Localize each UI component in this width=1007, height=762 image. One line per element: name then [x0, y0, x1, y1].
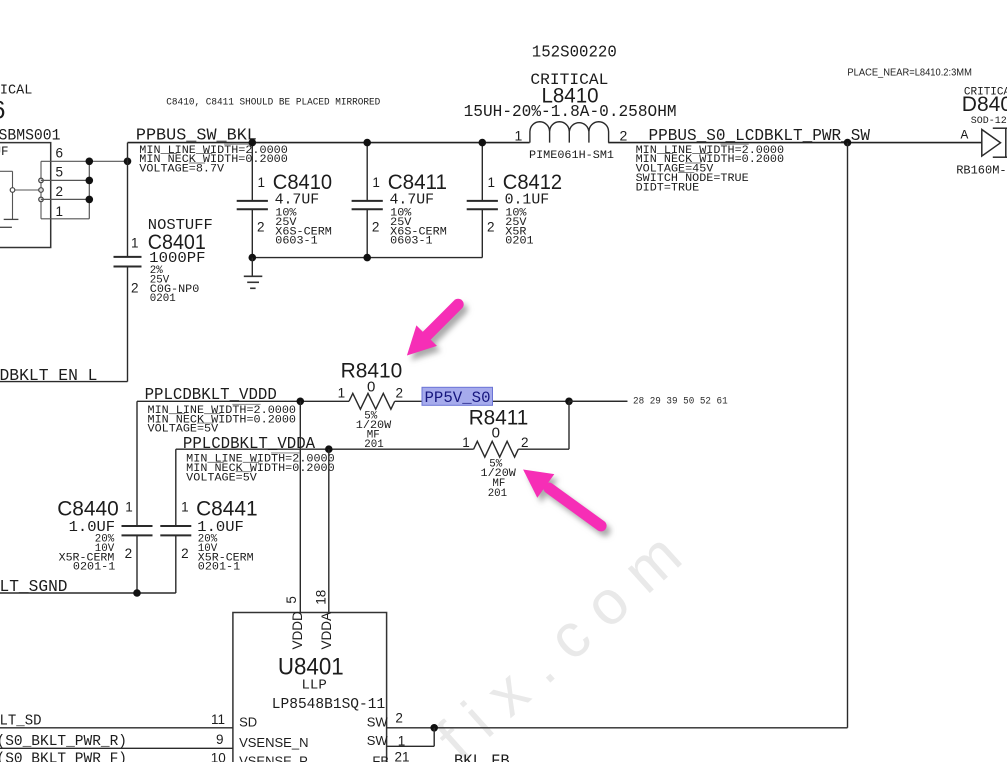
capacitor C8440 — [136, 401, 138, 526]
resistor R8411 — [474, 441, 519, 457]
pin bus vertical — [88, 161, 90, 219]
svg-text:PIME061H-SM1: PIME061H-SM1 — [529, 150, 614, 162]
svg-text:1: 1 — [515, 128, 523, 144]
svg-text:C8410, C8411 SHOULD BE PLACED: C8410, C8411 SHOULD BE PLACED MIRRORED — [166, 97, 380, 108]
svg-text:VOLTAGE=8.7V: VOLTAGE=8.7V — [139, 164, 224, 176]
pin 5 stub — [41, 179, 89, 181]
capacitor C8410 — [251, 143, 253, 201]
wire to pin 18 — [328, 449, 330, 612]
svg-text:4.7UF: 4.7UF — [275, 192, 320, 209]
svg-text:0.1UF: 0.1UF — [505, 192, 550, 209]
svg-text:0201: 0201 — [150, 293, 176, 305]
svg-text:VSENSE_P: VSENSE_P — [239, 753, 308, 762]
svg-text:VSENSE_N: VSENSE_N — [239, 735, 308, 750]
connector ground — [4, 218, 19, 220]
wire SW node vertical — [847, 143, 849, 728]
wire SGND — [0, 592, 176, 594]
svg-text:C8411: C8411 — [388, 170, 447, 194]
svg-text:2: 2 — [620, 128, 628, 144]
svg-text:SOD-123: SOD-123 — [971, 116, 1007, 127]
svg-text:4.7UF: 4.7UF — [390, 192, 435, 209]
svg-text:10: 10 — [211, 751, 226, 762]
svg-text:1: 1 — [181, 500, 189, 515]
svg-text:1: 1 — [462, 435, 470, 450]
capacitor C8401 — [114, 256, 142, 258]
svg-text:FB: FB — [372, 754, 389, 762]
svg-text:1: 1 — [125, 500, 133, 515]
wire pin 9 — [0, 747, 233, 749]
wire R8411 pin2 up — [518, 448, 569, 450]
svg-text:11: 11 — [211, 712, 225, 727]
annotation arrow 1 (points to R8410) — [407, 304, 458, 355]
svg-text:SW: SW — [367, 714, 389, 729]
svg-text:0: 0 — [367, 378, 375, 395]
net flag PP5V_S0 (highlighted) — [422, 387, 493, 405]
wire LCDBKLT_EN_L — [0, 381, 128, 383]
wire PP5V to sheet refs — [569, 400, 627, 402]
wire VDDD — [137, 400, 349, 402]
capacitor C8411 — [366, 143, 368, 201]
diode D8405 — [982, 130, 1001, 157]
capacitor C8441 — [175, 449, 177, 526]
capacitor C8412 — [481, 143, 483, 201]
svg-text:28 29 39 50 52 61: 28 29 39 50 52 61 — [633, 395, 728, 407]
svg-text:PPBUS_SW_BKL: PPBUS_SW_BKL — [136, 126, 257, 145]
svg-text:LLP: LLP — [302, 678, 327, 694]
wire SW pin 1 — [387, 745, 435, 747]
svg-text:1: 1 — [56, 204, 64, 219]
junction dot SW node — [844, 139, 852, 147]
annotation arrow 2 (points to R8411) — [523, 470, 601, 526]
svg-text:2: 2 — [396, 386, 404, 401]
svg-text:1: 1 — [131, 236, 139, 251]
svg-text:1: 1 — [488, 175, 496, 190]
svg-text:DIDT=TRUE: DIDT=TRUE — [636, 182, 700, 194]
wire rail PPBUS_SW_BKL — [128, 142, 530, 144]
pin 2 stub — [41, 198, 89, 200]
svg-text:18: 18 — [313, 590, 328, 605]
svg-text:6: 6 — [56, 145, 64, 160]
junction dot VDDD tap — [297, 398, 305, 406]
svg-text:2: 2 — [395, 710, 403, 725]
wire VDDA to R8411 — [176, 448, 474, 450]
svg-text:0: 0 — [492, 425, 500, 442]
svg-text:PLACE_NEAR=L8410.2:3MM: PLACE_NEAR=L8410.2:3MM — [847, 67, 972, 79]
svg-text:VDDA: VDDA — [319, 612, 334, 650]
svg-text:C8440: C8440 — [57, 497, 119, 521]
svg-text:2: 2 — [125, 546, 133, 561]
svg-text:6: 6 — [0, 97, 5, 125]
junction dots — [86, 158, 94, 166]
wire SW pin 2 — [387, 727, 848, 729]
svg-text:2: 2 — [131, 281, 139, 296]
svg-text:0603-1: 0603-1 — [275, 236, 317, 248]
svg-text:0201: 0201 — [505, 236, 533, 248]
svg-text:C8441: C8441 — [196, 497, 258, 521]
svg-text:201: 201 — [488, 488, 507, 500]
svg-text:C8412: C8412 — [503, 170, 562, 194]
wire to C8401 — [127, 143, 129, 257]
svg-text:SW: SW — [367, 733, 389, 748]
svg-text:15UH-20%-1.8A-0.258OHM: 15UH-20%-1.8A-0.258OHM — [464, 102, 677, 121]
svg-text:SD: SD — [239, 714, 257, 729]
svg-text:2: 2 — [372, 220, 380, 235]
svg-text:PPBUS_S0_LCDBKLT_PWR_SW: PPBUS_S0_LCDBKLT_PWR_SW — [649, 126, 871, 145]
svg-text:U8401: U8401 — [278, 653, 344, 680]
svg-text:2: 2 — [56, 184, 64, 199]
junction dot PP5V tap — [565, 398, 573, 406]
pin 1 stub — [41, 218, 89, 220]
junction dot VDDA tap — [325, 445, 333, 453]
svg-text:0201-1: 0201-1 — [198, 562, 240, 574]
svg-text:BKL_FB: BKL_FB — [454, 752, 510, 762]
connector internal contacts — [40, 161, 42, 219]
wire to pin 5 — [299, 401, 301, 612]
svg-text:152S00220: 152S00220 — [532, 43, 617, 62]
svg-text:9: 9 — [216, 732, 224, 747]
svg-text:0201-1: 0201-1 — [73, 562, 115, 574]
svg-text:PP5V_S0: PP5V_S0 — [425, 389, 491, 407]
svg-text:VOLTAGE=5V: VOLTAGE=5V — [186, 472, 257, 484]
svg-text:VDDD: VDDD — [290, 611, 305, 650]
svg-text:5: 5 — [56, 165, 64, 180]
svg-text:2: 2 — [257, 220, 265, 235]
cap bottom rail — [252, 257, 482, 259]
svg-text:UF: UF — [0, 145, 9, 159]
svg-text:21: 21 — [395, 749, 410, 762]
inductor L8410 coil — [530, 122, 609, 143]
svg-text:D8405: D8405 — [962, 93, 1007, 116]
svg-text:A: A — [961, 127, 969, 142]
connector SBMS001 body — [0, 143, 51, 248]
svg-text:2: 2 — [487, 220, 495, 235]
IC U8401 body — [233, 613, 387, 762]
svg-text:RB160M-30TR: RB160M-30TR — [956, 163, 1007, 177]
svg-text:1: 1 — [372, 175, 380, 190]
svg-text:C8410: C8410 — [273, 170, 332, 194]
wire pin 11 SD — [0, 727, 233, 729]
svg-text:1: 1 — [258, 175, 266, 190]
svg-text:0603-1: 0603-1 — [390, 236, 432, 248]
svg-text:PPLCDBKLT_VDDA: PPLCDBKLT_VDDA — [183, 434, 315, 453]
svg-text:1: 1 — [338, 386, 346, 401]
svg-text:SBMS001: SBMS001 — [0, 127, 61, 145]
wire rail PPBUS_S0 — [608, 142, 982, 144]
svg-text:LP8548B1SQ-11: LP8548B1SQ-11 — [272, 697, 385, 713]
pin 6 stub — [41, 160, 128, 162]
svg-text:(S0_BKLT_PWR_F): (S0_BKLT_PWR_F) — [0, 752, 127, 762]
ground — [251, 258, 253, 277]
svg-text:2: 2 — [521, 435, 529, 450]
svg-text:5: 5 — [284, 596, 299, 604]
svg-text:2: 2 — [181, 546, 189, 561]
connector internal switch — [0, 170, 13, 172]
resistor R8410 — [349, 393, 395, 409]
